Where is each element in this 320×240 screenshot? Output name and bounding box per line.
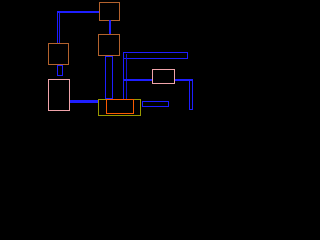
bus W4 narrow U under U2 (105, 56, 113, 99)
wire W7b vertical drop with capped end (189, 81, 193, 110)
box U3 left orange module (48, 43, 69, 65)
box U1 top orange module (99, 2, 121, 21)
wire W8 U4 to memory horizontal (70, 100, 99, 102)
connector blue rect C right of memory (142, 101, 169, 107)
register blue rect B long horizontal (123, 52, 188, 59)
wire W2 vertical double line to U3 (57, 13, 61, 44)
box U4 left pink module (48, 79, 70, 112)
connector blue rect A between U3 and U4 (57, 65, 64, 76)
wire W5 vertical double stem (123, 54, 128, 100)
box M2 bright orange inner block (106, 99, 134, 114)
wire W6 stem to U5 horizontal (124, 79, 152, 82)
box U2 middle orange module (98, 34, 121, 56)
box M1 yellow memory outline (98, 99, 141, 116)
wire W3 U1 to U2 vertical (109, 20, 112, 34)
box U5 right pink module (152, 69, 175, 84)
wire W7 U5 right horizontal (175, 79, 193, 82)
wire W1 top horizontal bus (57, 11, 99, 14)
